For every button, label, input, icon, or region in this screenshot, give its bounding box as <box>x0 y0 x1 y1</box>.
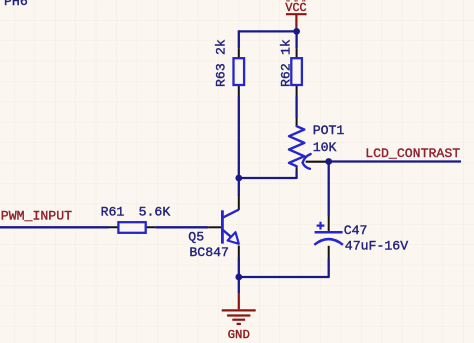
svg-text:R62: R62 <box>279 63 294 87</box>
wire top rail <box>239 30 297 32</box>
svg-text:PH6: PH6 <box>4 0 28 9</box>
wire to R63 top <box>238 30 240 48</box>
junction node VCC rail <box>293 28 300 35</box>
svg-text:R61: R61 <box>101 204 125 219</box>
junction node emitter <box>235 274 242 281</box>
svg-text:C47: C47 <box>344 223 368 238</box>
resistor R62 <box>279 39 302 95</box>
resistor R63 <box>214 39 245 95</box>
wire R63 bottom to collector junction <box>238 96 240 179</box>
wire R62 bottom to POT1 top <box>295 96 297 119</box>
svg-text:2k: 2k <box>214 39 229 55</box>
power symbol VCC <box>285 1 306 29</box>
svg-text:PWM_INPUT: PWM_INPUT <box>1 209 72 224</box>
junction node collector <box>235 175 242 182</box>
wire junction down to collector pin <box>238 178 240 196</box>
capacitor C47 <box>314 216 408 259</box>
junction node LCD_CONTRAST <box>325 158 332 165</box>
svg-text:10K: 10K <box>313 140 337 155</box>
svg-text:1k: 1k <box>279 39 294 55</box>
clipped text remnant above VCC <box>287 0 305 2</box>
resistor R61 <box>101 204 171 232</box>
svg-text:Q5: Q5 <box>188 230 204 245</box>
svg-text:BC847: BC847 <box>189 245 229 260</box>
ground GND <box>222 293 256 342</box>
wire VCC dot down to R62 <box>295 31 297 48</box>
wire junction down to C47 <box>328 162 330 217</box>
wire junction to GND <box>238 277 240 293</box>
wire R61 to base <box>155 226 208 228</box>
svg-text:GND: GND <box>228 328 250 342</box>
wire C47 bottom to emitter junction <box>239 259 329 278</box>
wire LCD_CONTRAST <box>329 160 461 162</box>
wire POT1 bottom to collector junction <box>239 171 297 178</box>
svg-text:VCC: VCC <box>285 1 306 15</box>
wire PWM input to R61 <box>0 226 109 228</box>
svg-text:47uF-16V: 47uF-16V <box>345 238 408 253</box>
svg-text:5.6K: 5.6K <box>139 204 171 219</box>
svg-text:LCD_CONTRAST: LCD_CONTRAST <box>365 146 460 161</box>
wire emitter to junction <box>238 258 240 278</box>
svg-text:POT1: POT1 <box>313 123 345 138</box>
transistor Q5 <box>188 195 239 260</box>
potentiometer POT1 <box>289 118 344 171</box>
svg-text:R63: R63 <box>214 63 229 87</box>
